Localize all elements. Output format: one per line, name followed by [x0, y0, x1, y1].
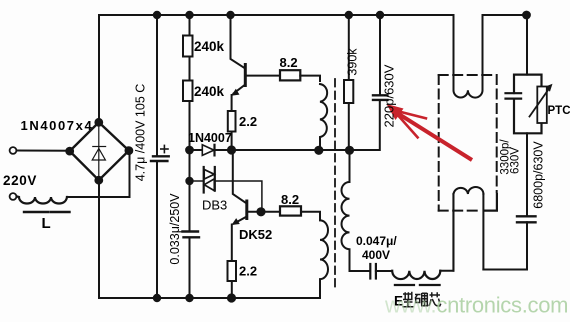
- node mid rail divider: [186, 147, 193, 154]
- diac DB3: [204, 167, 215, 193]
- node bottom rail Q2: [228, 294, 235, 301]
- svg-text:6800p/630V: 6800p/630V: [532, 141, 546, 209]
- transformer core dashed: [334, 79, 336, 291]
- terminal input bottom: [10, 193, 17, 200]
- transformer winding W3 main: [342, 150, 350, 271]
- capacitor C2 0.033u/250V plates: [183, 232, 200, 238]
- svg-text:1N4007: 1N4007: [188, 131, 232, 145]
- resistor R5 2.2: [228, 261, 237, 281]
- svg-text:L: L: [42, 215, 51, 232]
- svg-text:240k: 240k: [194, 39, 225, 54]
- inductor L2 core bars: [395, 284, 440, 286]
- wire C6 to lamp bottom: [483, 222, 527, 269]
- wire 390k column: [346, 12, 352, 18]
- lamp tube dashed outline: [439, 75, 497, 211]
- wire top rail: [99, 15, 453, 122]
- svg-text:2.2: 2.2: [239, 114, 257, 129]
- wire feed to PTC box: [526, 15, 528, 75]
- resistor R6 8.2: [280, 206, 301, 215]
- node bridge top: [95, 119, 102, 126]
- wire L to bridge: [67, 151, 130, 197]
- transformer winding W2: [320, 220, 328, 298]
- wire R5 to bottom rail: [231, 281, 233, 298]
- inductor L2 E-core: [392, 271, 440, 279]
- svg-text:0.047μ/: 0.047μ/: [356, 234, 397, 248]
- node midpoint: [228, 146, 235, 153]
- node top-right feed: [523, 12, 530, 19]
- node bridge bottom: [95, 177, 102, 184]
- lamp filament top: [453, 15, 455, 90]
- svg-text:220p/630V: 220p/630V: [382, 64, 397, 127]
- transistor Q2 base wire: [248, 211, 281, 213]
- wire R4 to winding1: [300, 76, 320, 81]
- node top rail C1: [154, 12, 160, 18]
- transistor Q1 base wire to R4: [246, 75, 280, 77]
- transistor Q1 base bar: [244, 65, 247, 86]
- svg-text:4.7μ /400V 105 C: 4.7μ /400V 105 C: [134, 84, 148, 182]
- svg-text:www.cntronics.com: www.cntronics.com: [384, 293, 568, 318]
- node bottom rail divider: [186, 295, 192, 301]
- capacitor C4 0.047u/400V plates: [370, 264, 376, 279]
- node bottom rail C1: [154, 295, 160, 301]
- resistor R3 2.2: [228, 111, 236, 132]
- resistor R4 8.2: [280, 70, 300, 80]
- svg-text:220V: 220V: [3, 173, 37, 188]
- wire mid rail: [190, 149, 203, 151]
- lamp filament bottom: [454, 187, 484, 194]
- wire resonant bottom line: [350, 270, 371, 272]
- transistor Q2 DK52 collector wire: [232, 150, 247, 203]
- resistor R7 390k: [344, 80, 353, 103]
- svg-text:390k: 390k: [346, 48, 360, 76]
- diode D5 1N4007: [202, 145, 214, 156]
- wire R6 to winding2: [301, 212, 320, 221]
- wire top-right segment: [483, 14, 528, 16]
- wire L2 to lamp: [440, 194, 453, 271]
- transistor Q1 collector wire: [227, 12, 233, 18]
- wire divider column: [189, 15, 191, 36]
- svg-text:1N4007x4: 1N4007x4: [21, 118, 94, 133]
- wire capacitor C1 column: [156, 15, 158, 156]
- svg-text:240k: 240k: [194, 84, 225, 99]
- capacitor C5 3300p/630V plates: [506, 93, 522, 98]
- node diac tap: [186, 178, 192, 184]
- svg-text:8.2: 8.2: [280, 55, 298, 70]
- resistor R1 240k: [183, 36, 193, 57]
- transformer winding W1: [320, 84, 327, 150]
- node mid rail winding-main: [346, 147, 353, 154]
- wire lamp bottom-right corner: [484, 194, 497, 211]
- svg-text:DB3: DB3: [202, 198, 227, 213]
- node bridge left: [66, 148, 73, 155]
- svg-text:400V: 400V: [362, 248, 390, 262]
- wire terminal to bridge: [17, 150, 70, 152]
- node Q2 base / diac: [257, 208, 264, 215]
- svg-text:DK52: DK52: [239, 227, 272, 242]
- inductor L core: [24, 211, 70, 213]
- wire R3 to midpoint: [231, 132, 233, 151]
- wire Q1 emitter to R3: [231, 95, 233, 111]
- resistor R2 240k: [183, 81, 193, 102]
- inductor L: [17, 197, 67, 204]
- thermistor PTC: [537, 87, 547, 124]
- bridge rectifier 1N4007x4: [70, 122, 129, 180]
- terminal input top: [10, 147, 17, 154]
- svg-text:8.2: 8.2: [281, 192, 299, 207]
- capacitor C3 220p/630V plates: [373, 95, 387, 100]
- PTC box outline: [514, 75, 542, 93]
- wire PTC box to C6: [526, 133, 528, 216]
- capacitor C6 6800p/630V plates: [517, 216, 536, 222]
- transistor Q2 base bar: [245, 201, 248, 219]
- node mid rail winding1: [315, 147, 322, 154]
- wire 220p column: [377, 12, 383, 18]
- svg-text:PTC: PTC: [548, 105, 570, 117]
- node bridge right: [125, 147, 132, 154]
- svg-text:2.2: 2.2: [239, 264, 257, 279]
- red arrow annotation: [387, 104, 473, 160]
- wire bottom rail: [99, 181, 320, 298]
- capacitor C1 polarity plus: [161, 145, 168, 152]
- node top rail divider: [186, 12, 192, 18]
- capacitor C1 4.7u/400V plates: [151, 156, 169, 161]
- svg-text:630V: 630V: [510, 147, 522, 174]
- svg-text:0.033μ/250V: 0.033μ/250V: [168, 193, 182, 265]
- transistor Q2 emitter: [234, 217, 247, 224]
- transistor Q1 emitter: [234, 85, 246, 94]
- bridge inner diode: [92, 126, 105, 177]
- wire Q2 emitter to R5: [231, 225, 233, 262]
- wire diac branch: [190, 180, 204, 182]
